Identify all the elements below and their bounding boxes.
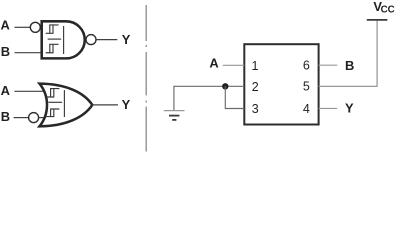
svg-text:2: 2 — [252, 80, 259, 94]
svg-text:B: B — [1, 109, 10, 124]
hysteresis symbol input B (gate 1) — [46, 44, 59, 52]
wire bubble to gate body — [39, 117, 46, 119]
package outline U1 — [244, 44, 318, 124]
wire output to Y (gate 1) — [96, 39, 117, 41]
AND-shaped gate body — [42, 21, 85, 58]
OR-shaped gate body — [40, 84, 93, 127]
svg-text:Y: Y — [122, 97, 131, 112]
svg-text:B: B — [1, 44, 10, 59]
wire pin 6 to B — [318, 64, 337, 66]
wire A to input bubble — [15, 26, 31, 28]
hysteresis symbol input A (gate 2) — [46, 89, 59, 97]
wire A to gate body — [14, 90, 44, 92]
junction dot on pin 2 wire — [222, 83, 228, 89]
interior vertical line (gate 2) — [63, 90, 65, 117]
wire B to gate body — [15, 52, 42, 54]
svg-text:4: 4 — [303, 102, 310, 116]
wire pin 2 to ground — [174, 86, 244, 110]
gate 2 (OR-form with inverted B input, Schmitt inputs) — [1, 83, 131, 126]
input bubble on B — [29, 113, 39, 123]
input bubble on A — [30, 22, 40, 32]
wire output to Y (gate 2) — [92, 104, 118, 106]
wire B to input bubble — [14, 117, 29, 119]
svg-text:B: B — [345, 58, 354, 73]
dash-dot separator line — [145, 5, 147, 152]
svg-text:Y: Y — [122, 32, 131, 47]
svg-text:A: A — [1, 83, 10, 98]
svg-text:Y: Y — [345, 101, 354, 116]
interior horizontal line (gate 2) — [49, 101, 63, 103]
svg-text:6: 6 — [303, 59, 310, 73]
svg-text:1: 1 — [252, 59, 259, 73]
svg-text:A: A — [1, 18, 10, 33]
hysteresis symbol input A (gate 1) — [46, 25, 59, 33]
wire pin 5 to Vcc rail — [318, 21, 377, 87]
interior horizontal line (gate 1) — [48, 38, 62, 40]
Vcc rail bar — [367, 19, 388, 21]
wire pin 4 to Y — [318, 107, 337, 109]
svg-text:3: 3 — [252, 102, 259, 116]
wire A to pin 1 — [223, 64, 245, 66]
output bubble (gate 1) — [86, 35, 96, 45]
hysteresis symbol input B (gate 2) — [46, 109, 59, 117]
ground — [164, 110, 185, 112]
gate 1 (NAND-form with inverted A input, Schmitt inputs) — [1, 18, 131, 60]
interior vertical line (gate 1) — [63, 26, 65, 54]
wire junction to pin 3 — [225, 86, 244, 108]
svg-text:5: 5 — [303, 80, 310, 94]
svg-text:A: A — [209, 56, 218, 71]
svg-text:CC: CC — [381, 5, 395, 16]
